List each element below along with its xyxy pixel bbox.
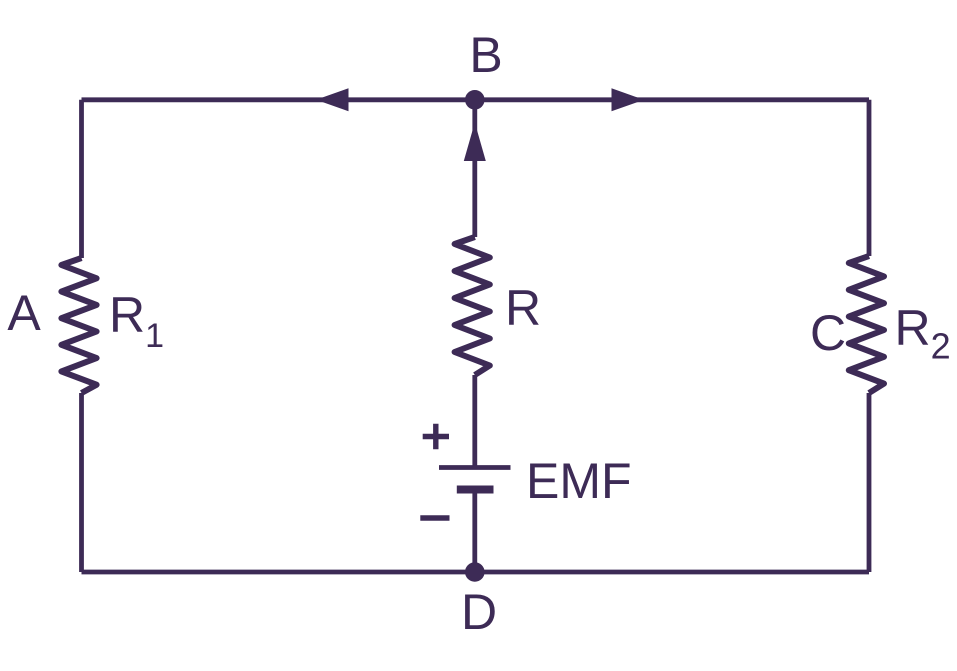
- wire middle branch B to resistor R: [472, 100, 477, 237]
- node B junction dot: [465, 90, 485, 110]
- wire middle branch resistor R to battery: [472, 375, 477, 467]
- wire right branch upper: [867, 100, 872, 256]
- wire right branch lower: [867, 393, 872, 572]
- battery minus sign: [420, 515, 449, 520]
- svg-text:R2: R2: [895, 300, 951, 367]
- resistor R1 zigzag: [61, 258, 96, 393]
- current arrow left on top wire: [316, 88, 349, 111]
- wire left branch lower: [79, 393, 84, 572]
- svg-text:R1: R1: [109, 287, 164, 355]
- node D junction dot: [465, 562, 485, 582]
- resistor R zigzag: [455, 237, 490, 375]
- svg-text:R: R: [505, 280, 541, 336]
- svg-text:A: A: [7, 285, 41, 341]
- wire top (A-B-C): [82, 97, 870, 102]
- current arrow up on middle branch: [464, 123, 486, 162]
- battery EMF short negative plate: [457, 486, 494, 494]
- wire middle branch battery to D: [472, 491, 477, 572]
- wire left branch upper: [79, 100, 84, 258]
- current arrow right on top wire: [612, 88, 645, 111]
- svg-text:B: B: [469, 27, 502, 83]
- svg-text:C: C: [810, 305, 846, 361]
- battery plus sign: [423, 424, 449, 450]
- svg-text:EMF: EMF: [526, 453, 632, 509]
- svg-text:D: D: [461, 584, 497, 640]
- wire bottom (A-D-C): [82, 570, 870, 575]
- battery EMF long positive plate: [439, 465, 511, 470]
- resistor R2 zigzag: [849, 256, 884, 393]
